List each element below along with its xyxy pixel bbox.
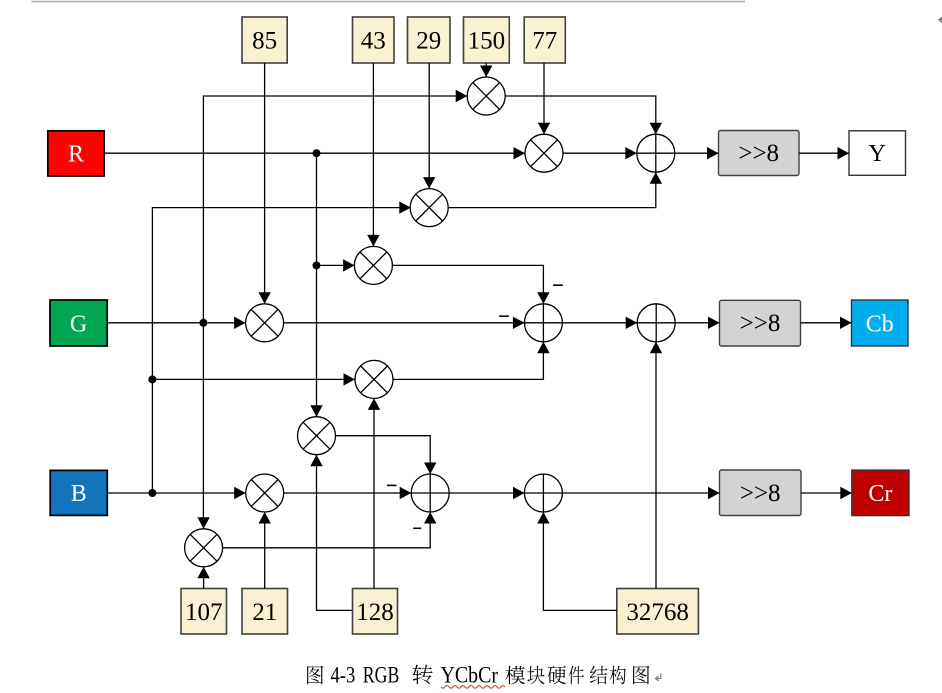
adder Y <box>637 134 675 172</box>
wire: 43 constant into multiplier x43 <box>367 63 379 246</box>
wire: Y adder output to shifter <box>675 147 719 159</box>
wire: B output to multiplier x21 <box>107 487 245 499</box>
wire: 21 constant into multiplier x21 <box>259 512 271 589</box>
svg-text:Cb: Cb <box>866 311 894 337</box>
wire: multiplier x21 output to Cr adder 1 (minus) <box>284 485 412 499</box>
wire: G output to multiplier x85 <box>107 317 245 329</box>
constant box 150 <box>464 17 510 63</box>
svg-text:32768: 32768 <box>626 599 689 626</box>
wire: 32768 constant up to Cb adder 2 bottom <box>650 342 662 589</box>
wire: multiplier x29 output to Y adder bottom <box>449 172 662 207</box>
wire: multiplier x128R output to Cr adder top <box>336 436 437 474</box>
node: B column at x128B row <box>148 375 156 383</box>
svg-text:Cr: Cr <box>868 481 892 507</box>
wire: Cr adder 1 to Cr adder 2 <box>449 487 524 499</box>
input box R <box>48 131 104 176</box>
multiplier x77 (R) <box>525 134 563 172</box>
wire: R node to multiplier x43 input <box>317 259 355 271</box>
constant box 107 <box>181 589 227 635</box>
wire: R output to multiplier x77 <box>104 147 525 159</box>
svg-text:YCbCr: YCbCr <box>441 663 499 689</box>
wire: multiplier x77 output to Y adder <box>562 147 637 159</box>
wire: multiplier x107 output to Cr adder 1 bottom (minus) <box>223 512 437 548</box>
wire: 32768 left side to Cr adder 2 bottom <box>537 512 617 610</box>
wire: R column down to multiplier x128R top <box>310 153 322 417</box>
output box Cb <box>852 300 909 346</box>
wire: G column up to multiplier x150 input, down to multiplier x107 <box>203 90 467 529</box>
input box G <box>50 300 107 346</box>
svg-text:85: 85 <box>252 28 277 55</box>
wire: 128 constant left side up to multiplier x128R bottom <box>310 455 352 611</box>
svg-text:B: B <box>71 481 87 507</box>
wire: 128 constant up to multiplier x128B <box>368 398 380 588</box>
multiplier x21 (B) <box>246 474 284 512</box>
svg-text:128: 128 <box>356 599 394 626</box>
multiplier x150 (G) <box>467 77 505 115</box>
wire: Cr shifter to Cr box <box>801 487 852 499</box>
output box Cr <box>852 470 909 515</box>
constant box 128 <box>353 589 398 635</box>
constant box 77 <box>524 17 565 63</box>
node: R row junction <box>313 149 321 157</box>
adder Cr 1 <box>411 474 449 512</box>
shift box >>8 (Y row) <box>719 131 800 176</box>
top gray rule <box>31 1 745 3</box>
wire: 29 constant into multiplier x29 <box>423 63 435 189</box>
wire: Cr adder 2 to shifter <box>563 487 720 499</box>
constant box 32768 <box>617 589 699 635</box>
constant box 43 <box>353 17 395 63</box>
svg-text:43: 43 <box>361 28 386 55</box>
wire: 107 constant into multiplier x107 <box>197 567 209 589</box>
wire: B column corner to multiplier x29 input <box>152 201 410 493</box>
adder Cb 2 <box>637 304 675 342</box>
svg-text:29: 29 <box>416 28 441 55</box>
adder Cr 2 <box>524 474 562 512</box>
multiplier x29 (B) <box>410 189 448 227</box>
wire: 77 constant into multiplier x77 <box>538 63 550 134</box>
wire: multiplier x150 output to Y adder top <box>505 96 662 134</box>
wire: multiplier x85 output to Cb adder 1 (minus) <box>284 316 525 329</box>
output box Y <box>849 131 906 176</box>
wire: Cb shifter to Cb box <box>801 317 852 329</box>
multiplier x85 (G) <box>246 304 284 342</box>
svg-text:>>8: >>8 <box>740 310 781 337</box>
caption: 图 4-3 RGB 转 YCbCr 模块硬件结构图 <box>307 663 661 689</box>
constant box 29 <box>408 17 451 63</box>
multiplier x107 (G) <box>185 529 223 567</box>
multiplier x128 (B) <box>355 360 393 398</box>
node: G row junction <box>199 319 207 327</box>
multiplier x128 (R) <box>298 417 336 455</box>
svg-text:107: 107 <box>185 599 223 626</box>
node: R column at x43 row <box>313 261 321 269</box>
input box B <box>50 470 107 515</box>
svg-text:Y: Y <box>869 141 886 167</box>
svg-text:R: R <box>68 142 84 168</box>
wire: Cb adder 2 to shifter <box>675 317 719 329</box>
adder Cb 1 <box>524 304 562 342</box>
wire: B node to multiplier x128B input <box>152 373 355 385</box>
constant box 85 <box>242 17 287 63</box>
wire: Y shifter output to Y box <box>799 147 849 159</box>
svg-text:>>8: >>8 <box>740 480 781 507</box>
svg-text:RGB: RGB <box>363 663 400 689</box>
wire: Cb adder 1 to Cb adder 2 <box>562 317 637 329</box>
svg-text:G: G <box>70 312 87 338</box>
wire: 85 constant into multiplier x85 <box>258 63 270 304</box>
constant box 21 <box>242 589 288 635</box>
wire: multiplier x43 output to Cb adder top (minus) <box>393 265 563 303</box>
node: B row junction <box>148 489 156 497</box>
svg-text:4-3: 4-3 <box>331 663 356 689</box>
shift box >>8 (Cr row) <box>720 470 802 516</box>
wire: G column arrow into multiplier x107 top <box>197 517 209 529</box>
svg-text:77: 77 <box>532 28 557 55</box>
wire: 150 constant into multiplier <box>480 63 492 77</box>
wire: multiplier x128B output to Cb adder bottom <box>393 342 550 380</box>
svg-text:150: 150 <box>468 28 506 55</box>
paragraph mark (top right) <box>939 15 942 23</box>
svg-text:21: 21 <box>252 599 277 626</box>
multiplier x43 (R) <box>354 246 392 284</box>
shift box >>8 (Cb row) <box>720 300 801 346</box>
svg-text:>>8: >>8 <box>738 140 779 167</box>
